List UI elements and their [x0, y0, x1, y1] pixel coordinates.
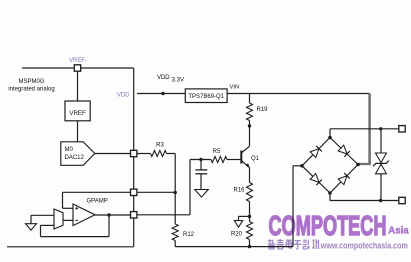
svg-text:VDD: VDD	[117, 93, 130, 99]
svg-text:R16: R16	[233, 187, 245, 193]
svg-text:R20: R20	[231, 232, 243, 238]
svg-text:MSPM0G: MSPM0G	[18, 79, 44, 85]
svg-text:3.3V: 3.3V	[172, 78, 184, 84]
svg-text:VIN: VIN	[230, 84, 240, 90]
svg-text:R12: R12	[183, 232, 195, 238]
svg-text:M0: M0	[65, 147, 74, 153]
svg-text:Q1: Q1	[251, 156, 260, 162]
svg-text:VREF: VREF	[69, 110, 86, 117]
svg-text:DAC12: DAC12	[65, 155, 85, 161]
svg-text:R5: R5	[213, 149, 221, 155]
svg-text:R3: R3	[156, 143, 164, 149]
svg-text:TPS7B69-Q1: TPS7B69-Q1	[188, 94, 224, 100]
svg-text:Asia: Asia	[388, 225, 409, 237]
svg-text:VDD: VDD	[157, 75, 170, 81]
svg-text:GPAMP: GPAMP	[87, 199, 108, 205]
svg-text:COMPOTECH: COMPOTECH	[269, 210, 387, 241]
svg-text:www.compotechasia.com: www.compotechasia.com	[320, 240, 408, 250]
svg-text:VREF-: VREF-	[69, 58, 87, 64]
svg-text:R19: R19	[257, 107, 269, 113]
svg-text:integrated analog: integrated analog	[8, 87, 54, 93]
